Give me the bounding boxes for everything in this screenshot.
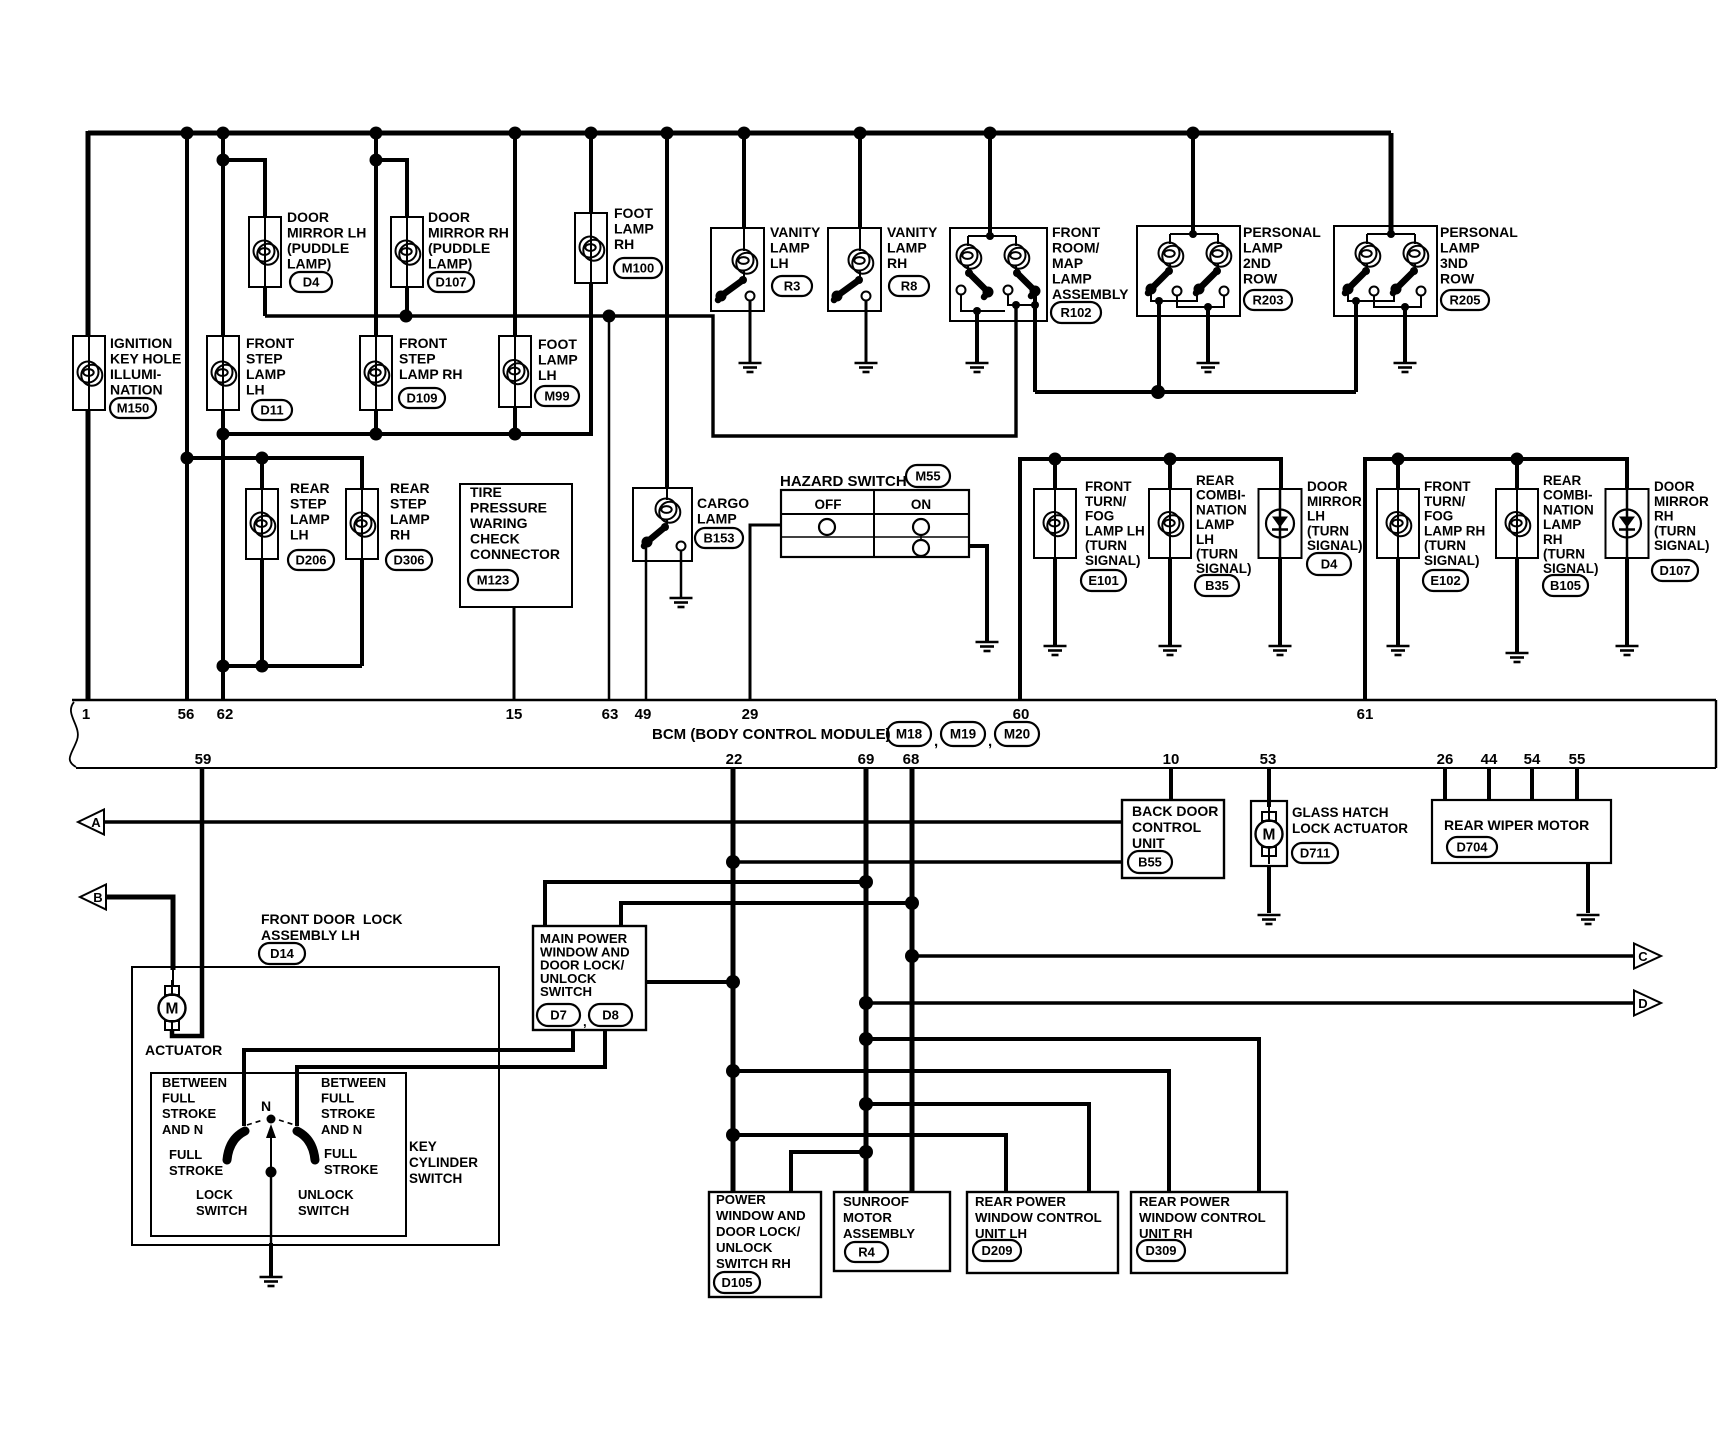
lamp foot lamp LH M99 [499,336,531,407]
svg-text:REAR POWERWINDOW CONTROLUNIT R: REAR POWERWINDOW CONTROLUNIT RH [1139,1194,1266,1241]
wire left feeder to BCM pin 1 (upper) [86,131,91,336]
svg-text:FOOTLAMPLH: FOOTLAMPLH [538,336,578,383]
ground B105 [1506,653,1529,662]
junction pin69 branch D209-1 [859,1097,873,1111]
svg-text:B55: B55 [1138,855,1162,870]
wire D206 riser [260,458,264,489]
svg-text:R4: R4 [858,1245,875,1260]
junction D4 branch [217,154,230,167]
svg-text:D109: D109 [406,391,437,406]
wire D8 to key cylinder unlock switch [297,1030,605,1126]
svg-text:M150: M150 [117,401,150,416]
svg-text:D309: D309 [1145,1243,1176,1258]
wire D4 mirror ground lead [1278,558,1282,645]
wire R205 internal top link [1367,233,1415,235]
junction on top bus [661,127,674,140]
svg-text:E101: E101 [1088,573,1118,588]
svg-text:D107: D107 [435,275,466,290]
connector M19 [941,722,985,746]
motor glass hatch lock actuator [1256,806,1283,864]
wire E101 riser [1053,459,1057,489]
contact hazard ON lower [913,540,929,556]
wire R102 internal top link [968,235,1016,237]
lamp front step lamp LH D11 [207,336,239,410]
connector M150 [110,398,156,418]
switch lever R102 right [1013,269,1041,297]
svg-text:,: , [583,1014,587,1029]
svg-text:D306: D306 [393,553,424,568]
connector M55 [906,465,950,487]
wire R3 feed [742,133,746,228]
svg-text:PERSONALLAMP3NDROW: PERSONALLAMP3NDROW [1440,224,1518,287]
wire branch to rear power window control unit LH (1) [866,1104,1089,1192]
svg-text:54: 54 [1524,751,1541,768]
wire rear step return bus y666 [223,664,362,668]
contact R102 right [1004,286,1013,295]
contact R203 right [1220,287,1229,296]
svg-text:D11: D11 [260,403,283,418]
connector arrow C [1634,944,1661,969]
svg-text:BETWEENFULLSTROKEAND N: BETWEENFULLSTROKEAND N [321,1075,386,1137]
switch lever R203 right [1194,267,1222,295]
lamp front turn/fog lamp RH E102 [1377,489,1419,558]
svg-text:REAR POWERWINDOW CONTROLUNIT L: REAR POWERWINDOW CONTROLUNIT LH [975,1194,1102,1241]
wire BCM pin 53 to glass hatch lock actuator [1267,768,1271,807]
wire D206 bottom [260,559,264,666]
switch lever R203 left [1146,267,1174,295]
connector M100 [614,258,662,278]
junction key switch common [266,1167,277,1178]
lamp ignition key hole illumination M150 [73,336,105,410]
junction on top bus [1187,127,1200,140]
box tire pressure warning check connector M123 [460,484,572,607]
connector D8 [589,1004,632,1026]
lamp door mirror RH turn signal D107 [1606,489,1649,558]
svg-text:A: A [91,815,101,830]
svg-text:ACTUATOR: ACTUATOR [145,1042,222,1058]
box power window and door lock/unlock switch RH D105 [709,1192,821,1297]
wire harness line A to back door control unit [104,820,1122,824]
svg-text:D7: D7 [550,1008,567,1023]
switch lever R3 [716,276,748,302]
connector D107 puddle [428,272,474,292]
svg-text:,: , [934,733,938,750]
box rear wiper motor D704 [1432,800,1611,863]
wire feeder x187 (pin 56 circuit) [185,133,189,700]
svg-text:E102: E102 [1430,573,1460,588]
lamp foot lamp RH M100 [575,213,607,283]
ground D4 mirror [1269,646,1292,655]
lamp door mirror LH (puddle) D4 [249,217,281,287]
contact hazard OFF [819,519,835,535]
svg-text:68: 68 [903,751,920,768]
lamp cargo lamp [656,499,681,523]
svg-text:M99: M99 [544,389,569,404]
svg-text:B35: B35 [1205,578,1229,593]
connector D107 mirror [1652,560,1698,581]
connector D14 [259,943,305,964]
wire turn signal bus pin 61 [1365,459,1627,700]
switch actuating arrow [266,1124,276,1170]
svg-text:R205: R205 [1449,293,1480,308]
svg-text:REARCOMBI-NATIONLAMPRH(TURNSIG: REARCOMBI-NATIONLAMPRH(TURNSIGNAL) [1543,473,1599,576]
wire R203 lamp tails [1169,264,1171,268]
junction R205 internal [1387,230,1395,238]
wire puddle lamp return y316 to R102 [265,305,1016,436]
junction R205 ground tap [1401,303,1409,311]
connector R203 [1244,290,1292,310]
wire R205 feed from bus corner [1389,133,1394,234]
wire D107 lamp bottom [405,287,409,316]
svg-text:REARCOMBI-NATIONLAMPLH(TURNSIG: REARCOMBI-NATIONLAMPLH(TURNSIGNAL) [1196,473,1252,576]
svg-text:N: N [261,1098,271,1114]
wire riser to BCM pin 63 [608,316,611,700]
junction y666 [256,660,269,673]
connector R4 [845,1242,888,1262]
svg-text:55: 55 [1569,751,1586,768]
junction D206 feed [256,452,269,465]
box sunroof motor assembly R4 [834,1192,950,1271]
connector M18 [887,722,931,746]
switch lever R205 right [1391,267,1419,295]
wire pin22 branch to back door control unit [733,860,1122,864]
svg-text:D4: D4 [1321,557,1338,572]
wire glass hatch actuator ground lead [1267,866,1271,913]
svg-text:22: 22 [726,751,743,768]
svg-text:R203: R203 [1252,293,1283,308]
wire cargo lamp feed x667 [665,133,669,488]
svg-text:M55: M55 [915,469,940,484]
box personal lamp 3nd row R205 [1334,226,1437,316]
contact R203 left [1173,287,1182,296]
svg-text:FOOTLAMPRH: FOOTLAMPRH [614,205,654,252]
svg-text:62: 62 [217,706,234,723]
junction R102 riser tap [1012,301,1020,309]
ground R8 [855,363,878,372]
junction B105 feed [1511,453,1524,466]
ground hazard switch [976,642,999,651]
svg-text:REARSTEPLAMPRH: REARSTEPLAMPRH [390,480,430,543]
wire feeder x223 lower (pin 62 circuit) [221,410,225,700]
wire harness line D [866,1001,1634,1005]
connector E101 [1081,570,1126,591]
connector arrow D [1634,991,1661,1016]
junction R102 output tap [1031,301,1039,309]
box front room/map lamp assembly R102 [950,228,1047,321]
lamp R102 left [957,245,982,269]
wire R102 output to personal lamp bus [1033,294,1037,392]
junction pin69 branch D105 [859,1145,873,1159]
switch contact arc unlock side [297,1131,315,1160]
junction D107 return [400,310,413,323]
lamp front step lamp RH D109 [360,336,392,410]
svg-text:26: 26 [1437,751,1454,768]
wire BCM pin 10 to back door control unit [1169,768,1173,800]
connector D4 mirror [1307,553,1351,575]
svg-text:CARGOLAMP: CARGOLAMP [697,495,749,527]
junction on top bus [370,127,383,140]
switch lever R102 left [965,269,994,298]
connector D7 [537,1004,580,1026]
connector M123 [468,570,518,590]
svg-text:B153: B153 [703,531,734,546]
svg-text:PERSONALLAMP2NDROW: PERSONALLAMP2NDROW [1243,224,1321,287]
svg-text:44: 44 [1481,751,1498,768]
junction R203 output tap [1155,297,1163,305]
svg-text:M19: M19 [950,727,976,742]
svg-text:B: B [93,890,102,905]
junction E101 feed [1049,453,1062,466]
connector D209 [973,1240,1021,1261]
svg-text:REARSTEPLAMPLH: REARSTEPLAMPLH [290,480,330,543]
svg-text:M123: M123 [477,573,510,588]
wire R8 feed [858,133,862,228]
svg-text:49: 49 [635,706,652,723]
wire key switch common to ground [270,1172,272,1243]
wire R3 internal [743,228,745,251]
svg-text:FULLSTROKE: FULLSTROKE [169,1147,224,1178]
ground R205 [1394,363,1417,372]
wire M123 riser to BCM pin 15 [513,607,516,700]
svg-text:ON: ON [911,497,931,512]
lamp R205 left [1356,243,1381,267]
svg-text:DOORMIRROR RH(PUDDLELAMP): DOORMIRROR RH(PUDDLELAMP) [428,209,509,272]
ground rear wiper motor [1577,915,1600,924]
connector B105 [1543,575,1588,596]
wire branch to rear power window control unit LH (2) [733,1135,1006,1192]
wire BCM pin 59 to door lock actuator [172,768,202,1036]
connector arrow A [78,810,104,835]
svg-text:DOORMIRROR LH(PUDDLELAMP): DOORMIRROR LH(PUDDLELAMP) [287,209,366,272]
junction pin22/B55 [726,855,740,869]
wire lamp return bus y434 [223,432,593,436]
ground E102 [1387,646,1410,655]
wire BCM pin 68 feeder [910,768,915,1192]
connector D4 puddle [290,272,332,292]
wire feeder x591 [589,133,593,213]
svg-text:FRONTSTEPLAMP RH: FRONTSTEPLAMP RH [399,335,463,382]
wire left feeder to BCM pin 1 (lower) [86,410,91,700]
wire R205 ground lead [1403,307,1407,362]
svg-text:M: M [166,1001,179,1018]
svg-text:DOORMIRRORLH(TURNSIGNAL): DOORMIRRORLH(TURNSIGNAL) [1307,479,1363,553]
wire feeder x515 lower [513,407,517,434]
wire rear step feed y458 [187,458,362,489]
junction R102 internal [986,232,994,240]
svg-text:D14: D14 [270,946,295,961]
wire turn signal bus pin 60 [1020,459,1281,700]
wire feeder x376 upper [374,133,378,336]
connector D206 [288,550,334,570]
svg-text:B105: B105 [1550,578,1581,593]
junction R205 output tap [1352,297,1360,305]
wire branch to rear power window control unit RH (2) [733,1071,1169,1192]
svg-text:59: 59 [195,751,212,768]
wire R8 ground lead [865,300,868,362]
wire harness line B to actuator [106,897,173,970]
wire cargo ground lead [680,550,683,597]
svg-text:56: 56 [178,706,195,723]
svg-text:UNLOCKSWITCH: UNLOCKSWITCH [298,1187,354,1218]
contact R205 right [1417,287,1426,296]
wire feeder x223 upper (pin 62 circuit) [221,133,225,336]
svg-text:IGNITIONKEY HOLEILLUMI-NATION: IGNITIONKEY HOLEILLUMI-NATION [110,335,181,398]
svg-text:OFF: OFF [815,497,842,512]
wire B105 ground lead [1515,558,1519,652]
box cargo lamp B153 [633,488,692,561]
wire BCM pins 26/44/54/55 to rear wiper motor [1443,768,1447,800]
svg-text:69: 69 [858,751,875,768]
wire cargo switch to BCM pin 49 [645,547,648,700]
junction on top bus [509,127,522,140]
wire R203 link2 [1177,295,1224,307]
svg-text:D107: D107 [1659,563,1690,578]
connector D11 [252,400,292,420]
wire R205 link2 [1374,295,1421,307]
junction on top bus [738,127,751,140]
svg-text:REAR WIPER MOTOR: REAR WIPER MOTOR [1444,817,1589,833]
svg-text:M20: M20 [1004,727,1030,742]
box rear power window control unit RH D309 [1131,1192,1287,1273]
svg-text:FRONT DOOR LOCKASSEMBLY LH: FRONT DOOR LOCKASSEMBLY LH [261,911,403,943]
connector R8 [889,276,929,296]
wire R8 internal [859,228,861,251]
switch contact arc lock side [227,1131,245,1160]
svg-text:60: 60 [1013,706,1030,723]
connector R3 [772,276,812,296]
svg-text:D206: D206 [295,553,326,568]
box glass hatch lock actuator [1251,801,1287,866]
svg-text:SUNROOFMOTORASSEMBLY: SUNROOFMOTORASSEMBLY [843,1194,915,1241]
wire E101 ground lead [1053,558,1057,645]
wire R3 ground lead [749,300,752,362]
lamp R203 right [1207,243,1232,267]
svg-text:,: , [988,733,992,750]
wire BCM pin 69 feeder [864,768,869,1192]
svg-text:VANITYLAMPLH: VANITYLAMPLH [770,224,821,271]
junction D107 branch [370,154,383,167]
junction R203 ground tap [1204,303,1212,311]
junction pin69 branch [859,875,873,889]
connector B153 [695,528,743,548]
wire R203 link1 [1151,293,1197,301]
box personal lamp 2nd row R203 [1137,226,1240,316]
junction y434 [509,428,522,441]
junction on top bus [217,127,230,140]
svg-text:M18: M18 [896,727,923,742]
wire R203 feed [1191,133,1195,234]
junction personal lamp bus [1151,385,1165,399]
connector B55 [1128,851,1172,873]
svg-text:FRONTTURN/FOGLAMP LH(TURNSIGNA: FRONTTURN/FOGLAMP LH(TURNSIGNAL) [1085,479,1145,568]
junction R102 ground tap [973,307,981,315]
connector E102 [1423,570,1468,591]
junction y434 [370,428,383,441]
wire R203 output riser [1157,301,1161,392]
wire R102 link1 [961,294,1005,311]
wire actuator lead top [172,970,174,986]
wire B35 riser [1168,459,1172,489]
svg-text:MAIN POWERWINDOW ANDDOOR LOCK/: MAIN POWERWINDOW ANDDOOR LOCK/UNLOCKSWIT… [540,931,630,999]
svg-text:GLASS HATCHLOCK ACTUATOR: GLASS HATCHLOCK ACTUATOR [1292,805,1408,836]
ground E101 [1044,646,1067,655]
svg-text:VANITYLAMPRH: VANITYLAMPRH [887,224,938,271]
ground cargo lamp [670,598,693,607]
wire hazard ground lead [969,546,987,641]
svg-text:M100: M100 [622,261,655,276]
wire feeder x515 upper [513,133,517,336]
wire D7 to key cylinder lock switch [244,1030,573,1126]
connector D704 [1447,837,1497,857]
svg-text:FRONTSTEPLAMPLH: FRONTSTEPLAMPLH [246,335,295,398]
wire D107 mirror ground lead [1625,558,1629,645]
wire feeder x376 lower [374,410,378,434]
connector D711 [1292,843,1338,863]
junction pin69 branch D309-1 [859,1032,873,1046]
connector M99 [535,386,579,406]
svg-text:10: 10 [1163,751,1180,768]
wire hazard table dividers [873,490,875,557]
junction pin63 riser [603,310,616,323]
wire R205 output riser [1354,301,1358,392]
switch lever R205 left [1343,267,1371,295]
contact hazard ON upper [913,519,929,535]
ground D107 mirror [1616,646,1639,655]
connector R102 [1051,302,1101,323]
box main power window and door lock/unlock switch [533,926,646,1030]
wire to door mirror LH puddle lamp [223,160,265,217]
wire R205 lamp tails [1366,264,1368,268]
ground key cylinder switch [260,1277,283,1286]
svg-text:M: M [1263,827,1276,844]
wire cargo lamp internal [666,488,668,500]
lamp rear step lamp RH D306 [346,489,378,559]
svg-text:FRONTROOM/MAPLAMPASSEMBLY: FRONTROOM/MAPLAMPASSEMBLY [1052,224,1129,302]
wire hazard to BCM pin 29 [750,525,781,700]
wire rear wiper motor ground lead [1586,863,1590,913]
wire E102 ground lead [1396,558,1400,645]
svg-text:KEYCYLINDERSWITCH: KEYCYLINDERSWITCH [409,1139,478,1186]
wire branch to rear power window control unit RH (1) [866,1039,1259,1192]
motor door lock actuator [159,980,186,1038]
svg-text:FULLSTROKE: FULLSTROKE [324,1146,379,1177]
lamp rear combination lamp RH B105 [1496,489,1538,558]
svg-text:C: C [1638,949,1648,964]
lamp front turn/fog lamp LH E101 [1034,489,1076,558]
wire harness line C [912,954,1634,958]
junction on top bus [854,127,867,140]
wire main power window switch output [646,980,733,984]
svg-text:61: 61 [1357,706,1374,723]
junction y666 [217,660,230,673]
wire B105 riser [1515,459,1519,489]
box vanity lamp RH R8 [828,228,881,311]
svg-text:1: 1 [82,706,90,723]
wire branch to main power window switch (1) [545,882,866,926]
junction on top bus [585,127,598,140]
wire D4 lamp bottom [263,287,267,316]
svg-text:BACK DOORCONTROLUNIT: BACK DOORCONTROLUNIT [1132,803,1218,851]
lamp vanity RH [849,250,874,274]
lamp door mirror RH (puddle) D107 [391,217,423,287]
ground B35 [1159,646,1182,655]
box front door lock assembly LH D14 [132,967,499,1245]
lamp R203 left [1159,243,1184,267]
svg-text:HAZARD SWITCH: HAZARD SWITCH [780,473,907,490]
junction pin22/main switch output [726,975,740,989]
wire to door mirror RH puddle lamp [376,160,407,217]
junction y434 [217,428,230,441]
